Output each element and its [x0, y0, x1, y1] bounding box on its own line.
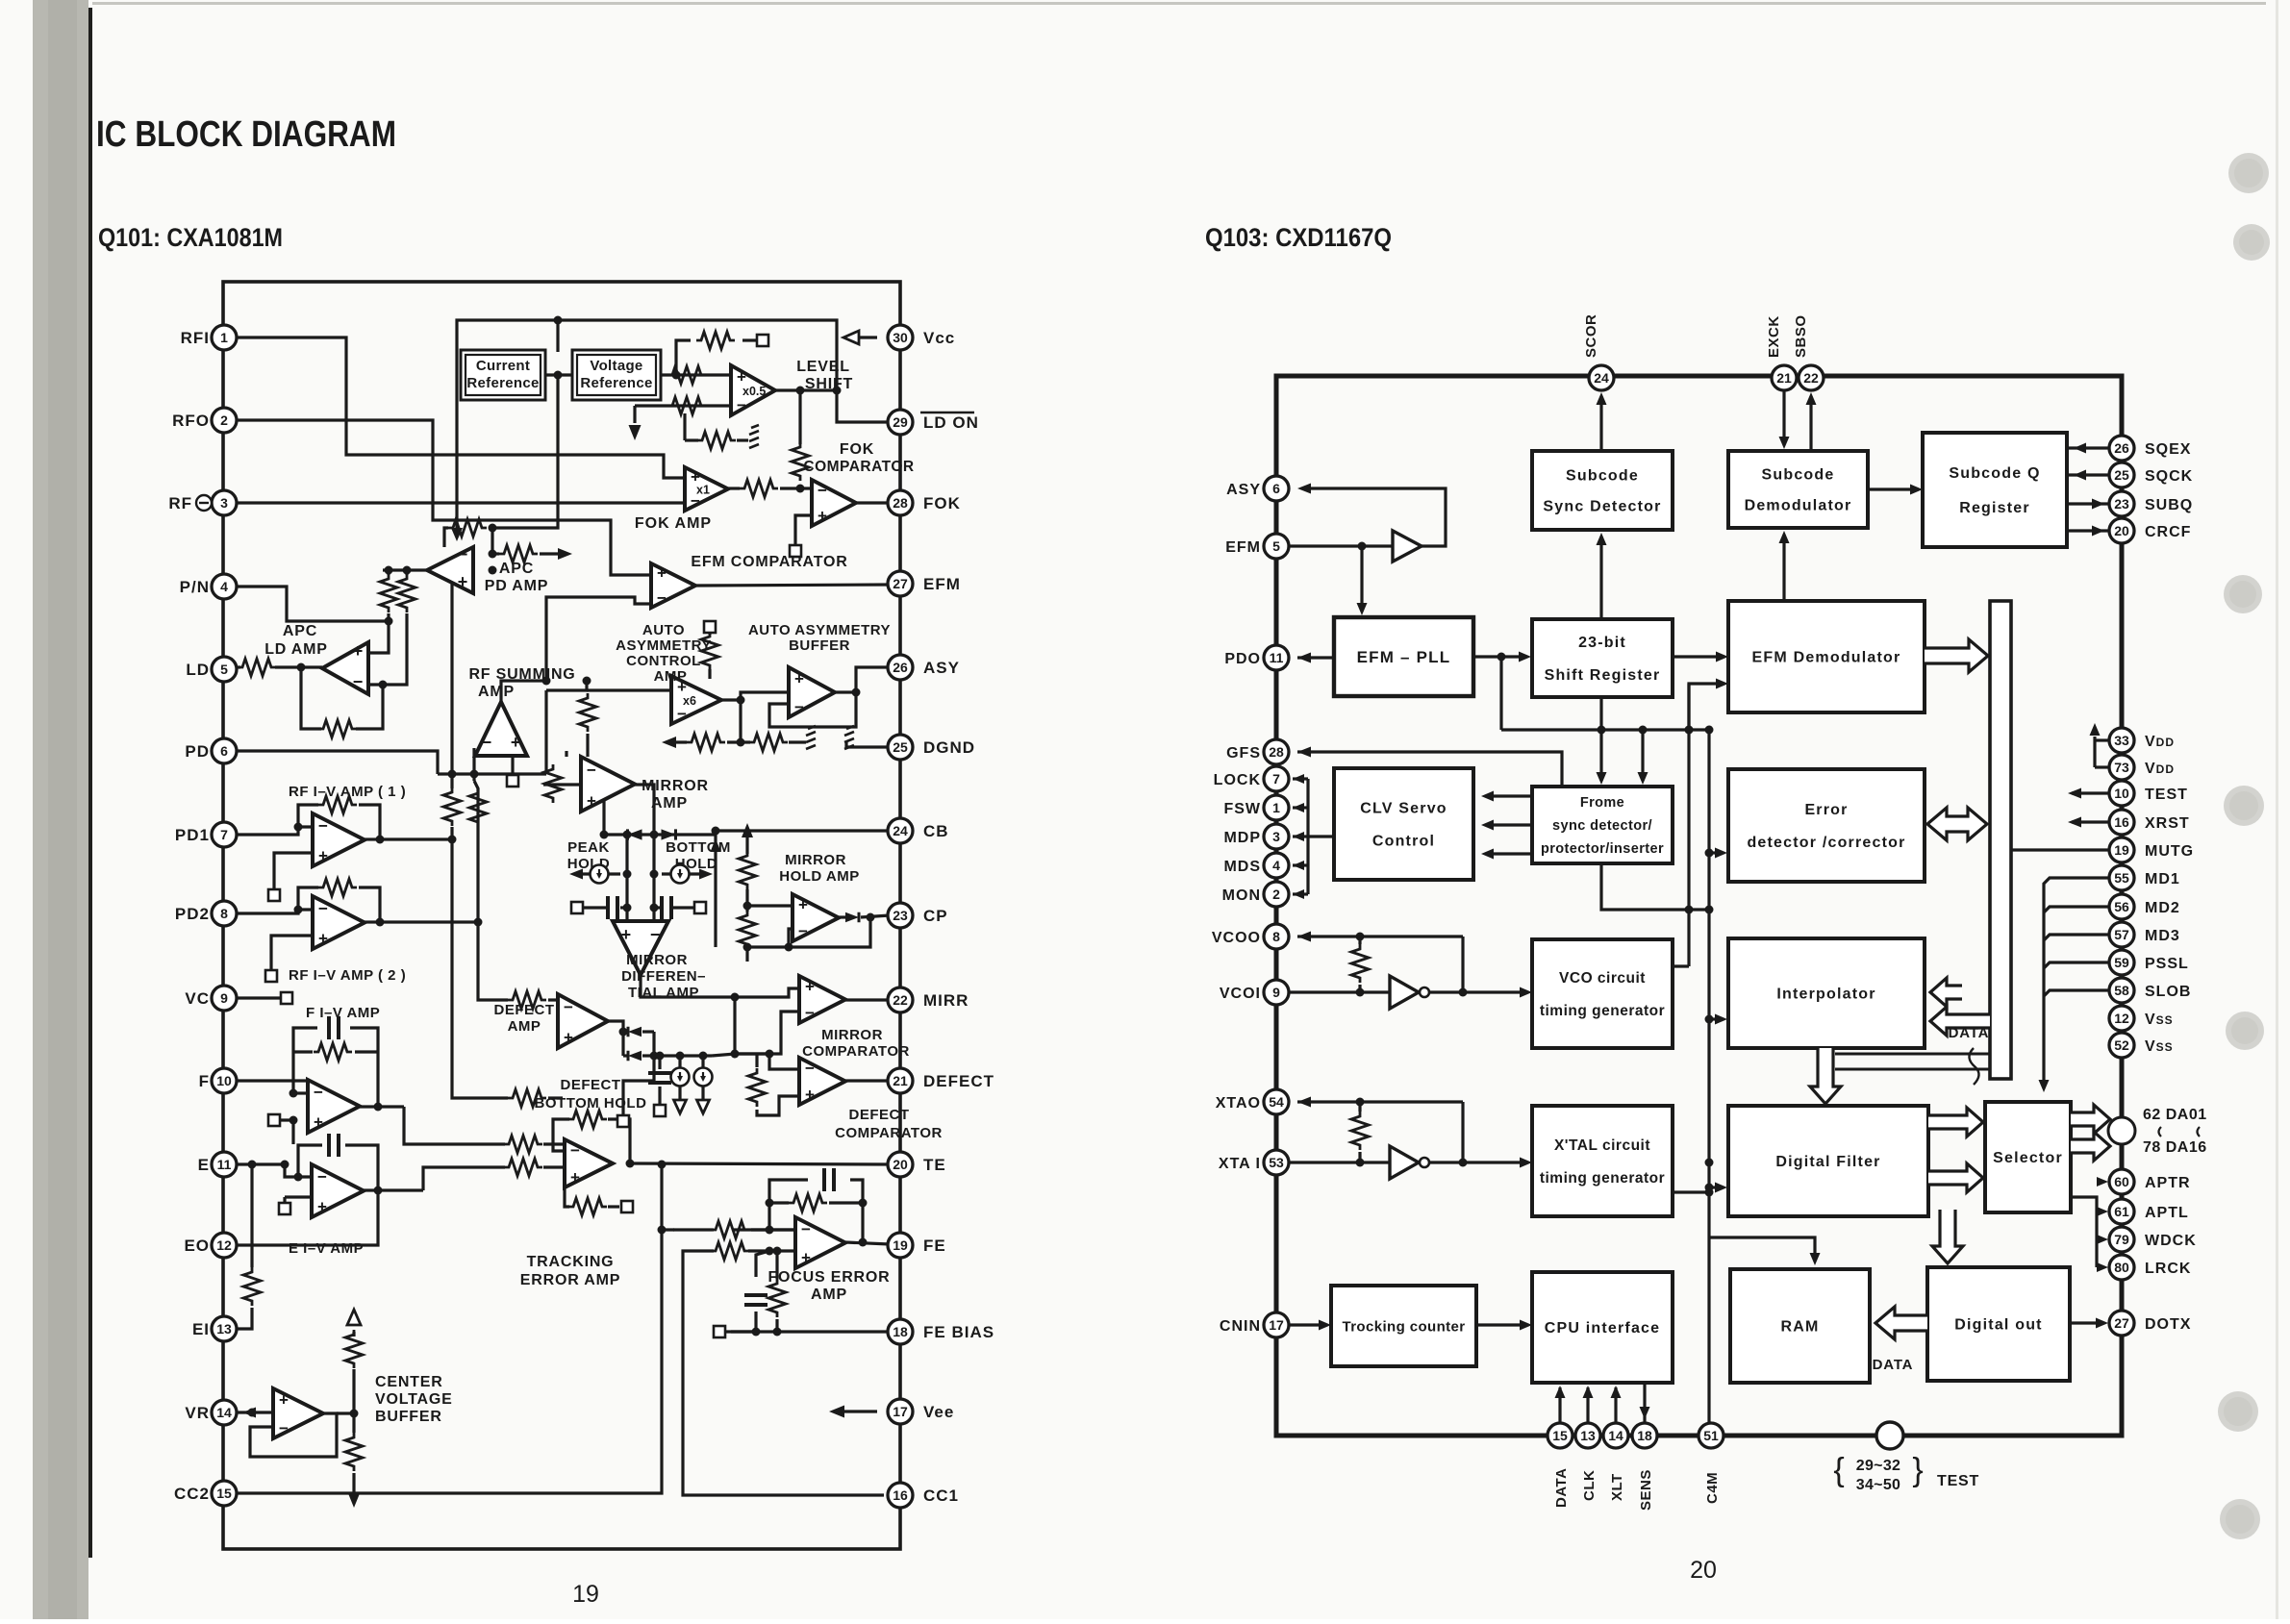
wire mirror hold amp out diode to pin23 — [839, 915, 845, 918]
svg-text:−: − — [798, 922, 808, 940]
arrow into ASY pin6 — [1297, 484, 1311, 494]
svg-text:BUFFER: BUFFER — [375, 1409, 442, 1425]
svg-text:4: 4 — [1272, 858, 1280, 873]
resistor focus input 1 — [711, 1221, 749, 1238]
buffer EFM — [1393, 531, 1422, 562]
svg-text:−: − — [650, 925, 661, 944]
wire defect amp output diodes — [608, 1021, 623, 1056]
wire riser x470 from APC PD + — [452, 582, 473, 788]
svg-text:−: − — [318, 900, 328, 918]
svg-text:E I–V AMP: E I–V AMP — [289, 1240, 364, 1257]
svg-text:VDD: VDD — [2145, 734, 2175, 750]
svg-text:14: 14 — [1608, 1428, 1623, 1443]
pin 25 DGND — [888, 735, 913, 760]
svg-text:−: − — [482, 733, 492, 752]
svg-text:9: 9 — [1272, 985, 1280, 1000]
svg-text:56: 56 — [2114, 899, 2129, 914]
op-amp AUTO ASYMMETRY BUFFER — [789, 667, 835, 717]
pin 22 MIRR — [888, 987, 913, 1012]
svg-text:19: 19 — [572, 1581, 599, 1608]
wire pin16 riser B — [683, 1251, 884, 1495]
svg-text:{: { — [1833, 1452, 1844, 1488]
pin 56 MD2 — [2109, 894, 2134, 919]
svg-text:FOK: FOK — [840, 441, 874, 458]
op-amp CENTER VOLTAGE BUFFER — [273, 1388, 323, 1438]
resistor APC LD feedback — [318, 720, 357, 737]
svg-text:MDS: MDS — [1223, 859, 1261, 875]
svg-text:DIFFEREN–: DIFFEREN– — [621, 968, 706, 985]
svg-text:SUBQ: SUBQ — [2145, 497, 2193, 513]
resistor asym 1 — [687, 734, 725, 751]
svg-text:DGND: DGND — [923, 738, 975, 757]
svg-text:Current: Current — [476, 358, 530, 374]
svg-text:5: 5 — [220, 662, 228, 677]
resistor tracking lower — [568, 1198, 607, 1215]
wire EFM demod feeds — [1673, 655, 1723, 658]
svg-text:+: + — [318, 930, 328, 948]
svg-text:MUTG: MUTG — [2145, 843, 2194, 860]
svg-text:FOK AMP: FOK AMP — [635, 515, 712, 532]
resistor APC feedback — [448, 519, 487, 537]
resistor E riser — [243, 1267, 261, 1306]
svg-text:ASYMMETRY: ASYMMETRY — [616, 637, 712, 654]
block EFM-PLL — [1334, 617, 1473, 696]
svg-text:sync detector/: sync detector/ — [1552, 818, 1652, 834]
ground asym 2 — [844, 726, 854, 749]
wire riser x568 mid — [544, 690, 547, 774]
pin 59 PSSL — [2109, 950, 2134, 975]
hollow arrow selector to DA 1 — [2071, 1105, 2110, 1134]
pin DA01-DA16 — [2108, 1117, 2135, 1144]
resistor LD amp branch 1 — [380, 574, 397, 612]
wire right pins chain 33-52 — [2120, 740, 2124, 1045]
wire E IV + pad — [285, 1195, 312, 1198]
IC Q101 outer boundary — [223, 282, 900, 1549]
svg-text:timing generator: timing generator — [1540, 1003, 1665, 1019]
resistor LD amp branch 2 — [398, 574, 415, 612]
op-amp E I-V AMP — [312, 1164, 364, 1217]
svg-text:13: 13 — [216, 1321, 232, 1337]
resistor level shift to comparator — [792, 442, 809, 481]
pin 1 RFI — [212, 325, 237, 350]
hollow arrow interpolator down — [1810, 1048, 1841, 1104]
pin 58 SLOB — [2109, 978, 2134, 1003]
capacitor E IV feedback — [329, 1134, 339, 1157]
svg-text:F: F — [199, 1072, 210, 1090]
resistor cvb lower — [345, 1433, 363, 1471]
resistor levelshift gnd — [697, 432, 736, 449]
svg-text:EFM Demodulator: EFM Demodulator — [1752, 650, 1901, 666]
wire pin21 EXCK down — [1782, 390, 1785, 444]
wire FOK amp output chain — [728, 487, 740, 489]
svg-text:SQCK: SQCK — [2145, 468, 2193, 485]
svg-text:27: 27 — [893, 576, 908, 591]
svg-text:CNIN: CNIN — [1220, 1318, 1261, 1335]
svg-text:Subcode Q: Subcode Q — [1949, 465, 2040, 482]
wire RF summing output — [501, 681, 546, 702]
junction levelshift out — [833, 387, 842, 395]
pin 4 MDS — [1264, 853, 1289, 878]
svg-text:VDD: VDD — [2145, 761, 2175, 777]
svg-text:IC BLOCK DIAGRAM: IC BLOCK DIAGRAM — [96, 114, 396, 155]
svg-text:CPU interface: CPU interface — [1545, 1320, 1661, 1337]
svg-text:LD ON: LD ON — [923, 413, 979, 432]
pin 60 APTR — [2109, 1169, 2134, 1194]
svg-text:61: 61 — [2114, 1204, 2129, 1219]
wire RF IV2 — [236, 910, 313, 913]
svg-text:FSW: FSW — [1223, 801, 1261, 817]
svg-text:13: 13 — [1580, 1428, 1596, 1443]
resistor RF IV2 feedback — [318, 879, 357, 896]
svg-text:+: + — [794, 670, 804, 688]
pin 17 Vee — [888, 1399, 913, 1424]
pin 5 EFM — [1264, 534, 1289, 559]
svg-text:EFM: EFM — [1225, 539, 1261, 556]
svg-text:DATA: DATA — [1553, 1468, 1570, 1508]
pin 79 WDCK — [2109, 1227, 2134, 1252]
svg-text:Digital out: Digital out — [1954, 1317, 2042, 1334]
svg-text:−: − — [818, 481, 827, 499]
pin 28 FOK — [888, 490, 913, 515]
wire trunk x1777 — [1707, 730, 1710, 1430]
wire pin30 Vcc arrow — [850, 336, 877, 338]
inverter VCO — [1390, 976, 1419, 1009]
svg-text:SHIFT: SHIFT — [805, 376, 853, 392]
svg-text:Voltage: Voltage — [590, 358, 642, 374]
wire focus error amp feedback — [769, 1180, 808, 1230]
capacitor FE BIAS — [744, 1295, 768, 1305]
hollow arrow Vcc pin30 — [843, 331, 859, 344]
resistor XTAL — [1351, 1112, 1369, 1150]
wire subcode sync to pin24 — [1599, 396, 1602, 451]
hollow arrow interpolator right 2 — [1930, 1007, 1990, 1036]
svg-text:P/N: P/N — [180, 578, 210, 596]
pin TEST 29-32 34-50 — [1876, 1422, 1903, 1449]
wire riser x497 — [476, 839, 479, 922]
svg-text:CLK: CLK — [1581, 1470, 1598, 1501]
resistor riser x470 — [443, 787, 461, 826]
pin 15 DATA — [1548, 1423, 1573, 1448]
capacitor bottom hold — [662, 896, 671, 919]
svg-text:6: 6 — [220, 743, 228, 759]
pin 4 P/N — [212, 574, 237, 599]
svg-text:25: 25 — [2114, 467, 2129, 483]
op-amp MIRROR AMP — [581, 757, 635, 812]
wire tracking inputs — [404, 1107, 505, 1144]
svg-text:VCOI: VCOI — [1220, 986, 1261, 1002]
pin 12 V<tspan font-size="12">SS</tspan> — [2109, 1006, 2134, 1031]
svg-text:x6: x6 — [683, 694, 696, 708]
svg-text:Sync Detector: Sync Detector — [1543, 499, 1661, 515]
svg-text:PSSL: PSSL — [2145, 956, 2189, 972]
resistor levelshift lower — [667, 397, 706, 414]
wire RF IV1 — [236, 827, 313, 835]
svg-text:DEFECT: DEFECT — [849, 1107, 910, 1123]
pin 27 EFM — [888, 571, 913, 596]
resistor VCO — [1351, 944, 1369, 983]
pin 51 C4M — [1699, 1423, 1724, 1448]
hollow arrow selector to DA 2 — [2071, 1132, 2110, 1161]
capacitor F IV feedback — [329, 1016, 339, 1039]
svg-text:WDCK: WDCK — [2145, 1233, 2197, 1249]
svg-text:RF: RF — [168, 494, 192, 512]
pin 20 TE — [888, 1152, 913, 1177]
pin 2 MON — [1264, 882, 1289, 907]
pin 18 SENS — [1632, 1423, 1657, 1448]
svg-text:Interpolator: Interpolator — [1776, 987, 1875, 1003]
pad E IV — [279, 1203, 290, 1214]
svg-text:Q103: CXD1167Q: Q103: CXD1167Q — [1205, 223, 1392, 252]
svg-text:17: 17 — [893, 1404, 908, 1419]
svg-text:F I–V AMP: F I–V AMP — [306, 1005, 380, 1021]
wire pin3 to FOK amp - — [236, 501, 685, 504]
block CLV Servo Control — [1334, 768, 1473, 880]
svg-text:DEFECT: DEFECT — [923, 1072, 994, 1090]
resistor tracking input 2 — [504, 1159, 542, 1176]
resistor defect amp lower input — [508, 1089, 546, 1107]
wire defect to mirror junction — [712, 1054, 735, 1056]
ground asym 1 — [806, 726, 816, 749]
resistor defect amp input — [508, 991, 546, 1009]
resistor tracking feedback — [568, 1111, 607, 1128]
svg-text:SCOR: SCOR — [1583, 314, 1599, 358]
pin 20 CRCF — [2109, 518, 2134, 543]
resistor mirror hold upper — [739, 851, 756, 889]
svg-text:SENS: SENS — [1638, 1469, 1654, 1511]
svg-text:−: − — [570, 1141, 580, 1160]
op-amp MIRROR HOLD AMP — [793, 894, 839, 941]
wire mirror amp output down — [635, 785, 654, 835]
wire mirror comp + input — [735, 1012, 799, 1054]
svg-text:−: − — [657, 588, 667, 607]
wire VCO out up — [1673, 964, 1689, 967]
svg-text:FOK: FOK — [923, 494, 961, 512]
svg-text:RFI: RFI — [181, 329, 210, 347]
resistor APC output arrow — [499, 545, 538, 562]
svg-text:x1: x1 — [696, 484, 710, 497]
svg-text:10: 10 — [216, 1073, 232, 1088]
wire riser x497 down to defect amp — [478, 922, 508, 1000]
wire CPU pins up — [1558, 1387, 1561, 1423]
svg-text:RAM: RAM — [1780, 1319, 1819, 1336]
svg-text:+: + — [317, 1198, 327, 1216]
pin 24 SCOR — [1589, 365, 1614, 390]
pin 26 ASY — [888, 655, 913, 680]
pin 18 FE BIAS — [888, 1319, 913, 1344]
svg-text:CB: CB — [923, 822, 949, 840]
svg-text:DEFECT: DEFECT — [494, 1002, 555, 1018]
resistor x6 input — [701, 632, 718, 670]
pad FOK comparator — [790, 545, 801, 557]
pin 16 CC1 — [888, 1483, 913, 1508]
wire XRST arrow — [2072, 820, 2109, 823]
wire peak/bottom hold rail — [604, 833, 716, 836]
wire EFM pin5 buffer — [1289, 544, 1393, 547]
pin 8 PD2 — [212, 901, 237, 926]
wire hold branches down — [625, 835, 628, 908]
wire LD amp minus branch — [405, 570, 408, 575]
svg-text:26: 26 — [2114, 440, 2129, 456]
arrow PDO pin11 — [1297, 656, 1334, 659]
svg-text:MIRROR: MIRROR — [626, 952, 688, 968]
svg-text:COMPARATOR: COMPARATOR — [835, 1125, 943, 1141]
svg-text:EO: EO — [184, 1237, 210, 1255]
svg-text:7: 7 — [220, 827, 228, 842]
wire TEST arrow — [2072, 791, 2109, 794]
pin 73 V<tspan font-size="12">DD</tspan> — [2109, 755, 2134, 780]
wire x764 riser down — [733, 997, 736, 1054]
svg-text:E: E — [198, 1156, 210, 1174]
wire EFM-PLL out — [1473, 655, 1525, 658]
diode defect 1 — [628, 1027, 642, 1037]
wire frame sync rail — [1501, 728, 1709, 731]
svg-text:Vee: Vee — [923, 1403, 954, 1421]
pin 57 MD3 — [2109, 922, 2134, 947]
svg-text:Q101: CXA1081M: Q101: CXA1081M — [98, 223, 283, 252]
svg-text:30: 30 — [893, 330, 908, 345]
pad RF IV1 — [268, 889, 280, 901]
op-amp F I-V AMP — [308, 1080, 360, 1133]
pin 14 VR — [212, 1400, 237, 1425]
wire x6 amp input — [546, 681, 587, 690]
wire pin12 EO to E amp output — [236, 1190, 378, 1245]
wires servo pins cluster — [1293, 777, 1308, 780]
svg-text:5: 5 — [1272, 538, 1280, 554]
wire pin5 to APC LD amp — [236, 665, 240, 668]
current source peak hold — [591, 865, 609, 884]
svg-text:52: 52 — [2114, 1037, 2129, 1053]
svg-text:PEAK: PEAK — [567, 839, 610, 856]
pad RF IV2 — [265, 970, 277, 982]
wire top rail to pin29 — [457, 320, 890, 534]
diode bottom hold — [662, 829, 676, 839]
binder holes — [2228, 153, 2269, 193]
svg-text:16: 16 — [2114, 814, 2129, 830]
arrow VR pin — [242, 1408, 256, 1418]
wire DA to DOTX — [2120, 1143, 2125, 1423]
pad F IV — [268, 1114, 280, 1126]
pin 27 DOTX — [2109, 1311, 2134, 1336]
wire mirror amp inputs — [565, 751, 567, 757]
pin 14 XLT — [1603, 1423, 1628, 1448]
pin 52 V<tspan font-size="12">SS</tspan> — [2109, 1033, 2134, 1058]
hollow arrow defect 1 — [674, 1100, 687, 1113]
svg-text:MD1: MD1 — [2145, 871, 2180, 887]
arrow bottom hold — [699, 869, 713, 880]
pin 21 DEFECT — [888, 1068, 913, 1093]
svg-text:−: − — [279, 1419, 289, 1437]
svg-text:33: 33 — [2114, 733, 2129, 748]
svg-text:23: 23 — [2114, 496, 2129, 512]
pin 13 EI — [212, 1316, 237, 1341]
pin 6 ASY — [1264, 476, 1289, 501]
svg-text:XLT: XLT — [1609, 1473, 1625, 1501]
svg-text:Subcode: Subcode — [1566, 468, 1639, 485]
wire XTAO pin54 — [1297, 1100, 1463, 1103]
op-amp RF I-V AMP 2 — [313, 896, 365, 949]
svg-text:LRCK: LRCK — [2145, 1261, 2191, 1277]
wire riser x497 upper — [472, 774, 475, 781]
wire CNIN pin17 — [1289, 1323, 1325, 1326]
svg-text:−: − — [794, 698, 804, 716]
wire defect diode join — [623, 1032, 654, 1115]
wire APC LD amp feedback loop — [301, 667, 321, 729]
pin 17 CNIN — [1264, 1312, 1289, 1337]
pad RF summing + — [507, 775, 518, 787]
svg-text:9: 9 — [220, 990, 228, 1006]
block Subcode Demodulator — [1728, 451, 1868, 528]
wire tracking counter to CPU — [1476, 1323, 1526, 1326]
svg-text:x0.5: x0.5 — [742, 385, 766, 398]
block Digital out — [1927, 1267, 2070, 1381]
svg-text:29~32: 29~32 — [1856, 1458, 1900, 1474]
svg-text:MD2: MD2 — [2145, 900, 2180, 916]
svg-text:−: − — [458, 544, 468, 563]
svg-text:24: 24 — [893, 823, 908, 838]
wire pin2 to EFM comparator + — [236, 420, 651, 575]
svg-text:+: + — [801, 1249, 811, 1267]
wire summing input row — [438, 772, 546, 775]
block Selector — [1985, 1102, 2071, 1212]
svg-text:29: 29 — [893, 414, 908, 430]
resistor tracking input 1 — [504, 1136, 542, 1153]
svg-text:}: } — [1912, 1452, 1923, 1488]
svg-text:EFM – PLL: EFM – PLL — [1357, 648, 1451, 666]
pad VC pin — [281, 992, 292, 1004]
svg-text:26: 26 — [893, 660, 908, 675]
pad defect hold — [654, 1105, 666, 1116]
wire peak hold source — [577, 872, 620, 875]
svg-text:20: 20 — [1690, 1557, 1717, 1584]
svg-text:MIRROR: MIRROR — [785, 852, 846, 868]
svg-text:XTA I: XTA I — [1219, 1156, 1261, 1172]
wire pin1 to FOK amp + — [236, 337, 685, 478]
wire asym buffer output to pin26 — [835, 667, 890, 692]
wire defect comparator inputs — [769, 1054, 799, 1069]
svg-text:CLV Servo: CLV Servo — [1360, 801, 1447, 817]
wire GFS pin28 — [1297, 752, 1562, 787]
wire APC PD amp output left — [383, 568, 427, 571]
svg-text:28: 28 — [1269, 744, 1284, 760]
svg-text:Digital Filter: Digital Filter — [1775, 1154, 1880, 1170]
wire mirror hold resistor column — [745, 835, 748, 854]
wire RF summing - input — [472, 748, 475, 774]
block Digital Filter — [1728, 1106, 1928, 1216]
svg-text:Register: Register — [1959, 500, 2030, 516]
block Subcode Q Register — [1923, 433, 2067, 547]
wire bottom hold source — [662, 872, 705, 875]
wire pin25 DGND — [846, 742, 890, 747]
op-amp APC LD AMP — [322, 642, 368, 694]
ground arrow levelshift — [629, 425, 642, 440]
wire FE BIAS network — [756, 1330, 890, 1333]
wire tracking output to pin20 — [630, 1163, 890, 1164]
svg-text:BOTTOM: BOTTOM — [666, 839, 731, 856]
svg-text:MD3: MD3 — [2145, 928, 2180, 944]
svg-text:22: 22 — [1803, 370, 1819, 386]
svg-text:−: − — [801, 1220, 811, 1238]
pin 53 XTAI — [1264, 1150, 1289, 1175]
svg-text:AMP: AMP — [478, 684, 515, 700]
svg-text:LOCK: LOCK — [1214, 772, 1261, 788]
op-amp MIRROR DIFFERENTIAL AMP — [613, 921, 668, 975]
svg-text:AUTO: AUTO — [642, 622, 685, 638]
resistor FE BIAS — [768, 1279, 786, 1317]
svg-text:VSS: VSS — [2145, 1038, 2174, 1055]
svg-text:57: 57 — [2114, 927, 2129, 942]
pin 26 SQEX — [2109, 436, 2134, 461]
wire MUTG pin19 — [2011, 848, 2109, 851]
